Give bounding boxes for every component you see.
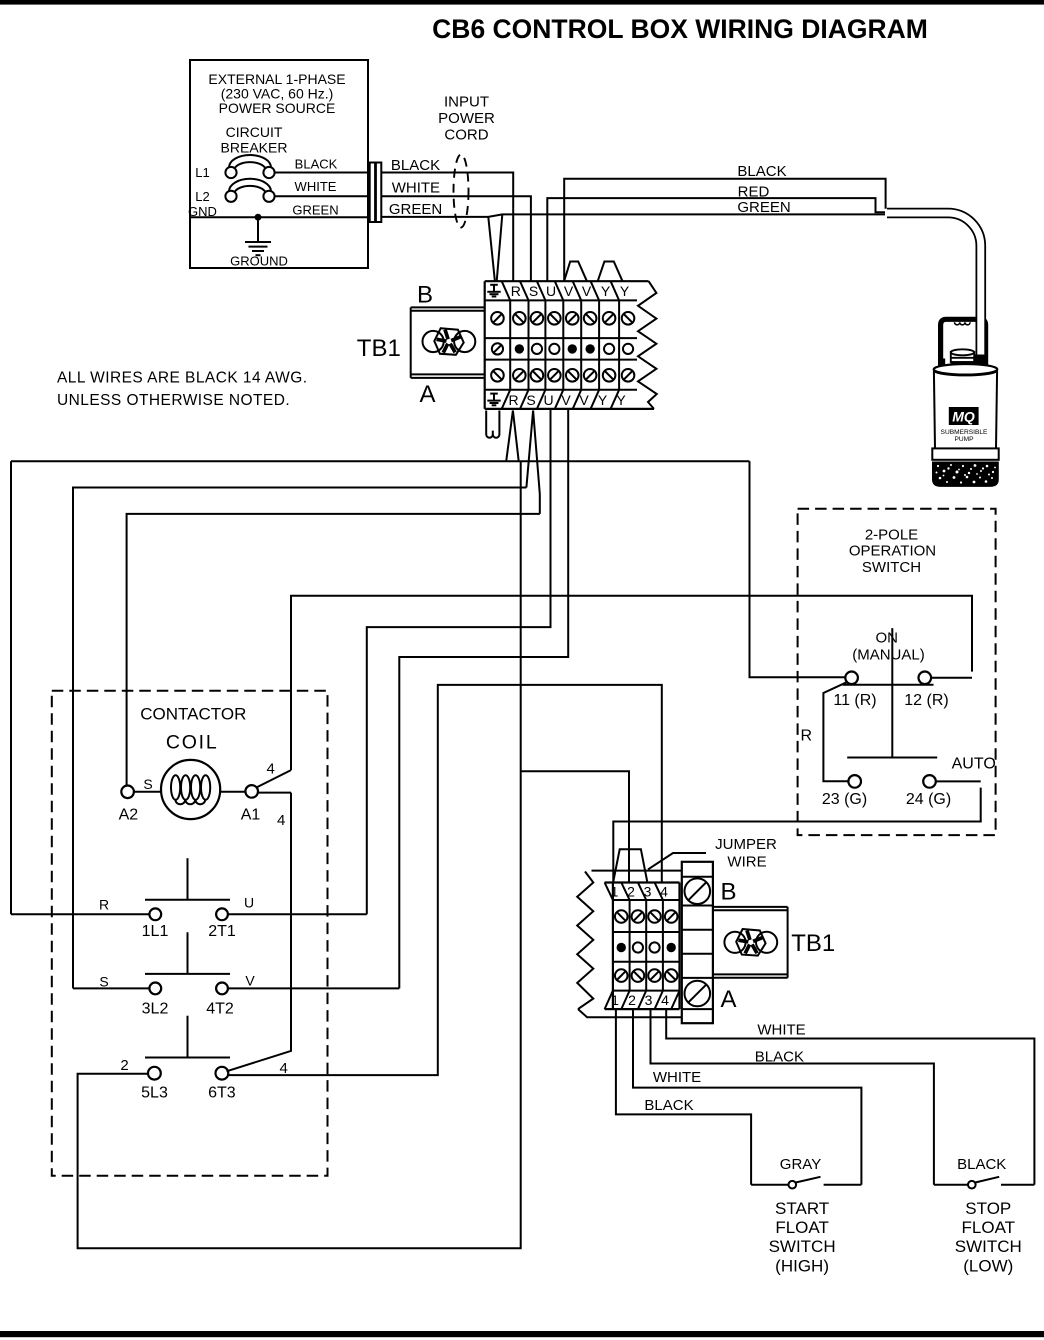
svg-text:V: V: [245, 973, 255, 989]
TB1 bracket MQ logo: [423, 328, 476, 355]
contact 1L1-2T1 bar and stem: [145, 858, 230, 900]
svg-text:SUBMERSIBLE: SUBMERSIBLE: [941, 429, 989, 436]
svg-text:UNLESS OTHERWISE NOTED.: UNLESS OTHERWISE NOTED.: [57, 392, 290, 409]
svg-text:1L1: 1L1: [142, 923, 169, 940]
wire white from L2 to connector: [275, 195, 370, 197]
svg-text:1: 1: [611, 883, 619, 899]
svg-text:ON: ON: [875, 630, 898, 647]
svg-text:GROUND: GROUND: [230, 254, 288, 269]
start float switch right wire: [824, 1184, 862, 1186]
svg-text:CONTACTOR: CONTACTOR: [140, 705, 246, 724]
svg-text:R: R: [508, 392, 518, 408]
pump cable gland: [974, 355, 986, 369]
svg-text:BREAKER: BREAKER: [221, 140, 288, 156]
wire lower TB1 cell4 to stop float switch right: [666, 1009, 1034, 1185]
switch lower contact bar: [847, 757, 937, 759]
terminal block TB1 top: outline: [485, 281, 654, 409]
junction dot on green wire: [255, 214, 262, 221]
TB1 row1 screw terminals: [491, 312, 634, 325]
TB1 bottom label ground symbol: [487, 394, 500, 406]
jumper wire callout line: [648, 853, 706, 869]
lower TB1 row borders: [613, 900, 680, 991]
wire 2 net branch to lower TB1 cell 2: [521, 771, 629, 882]
svg-text:R: R: [99, 897, 109, 913]
svg-text:GREEN: GREEN: [292, 203, 338, 218]
green taper legs into ground terminal: [488, 214, 502, 281]
svg-text:11 (R): 11 (R): [833, 692, 876, 709]
lower TB1 top label slanted dividers: [605, 883, 663, 901]
svg-text:A2: A2: [119, 807, 139, 824]
svg-text:2-POLE: 2-POLE: [865, 527, 918, 544]
ground symbol stem: [257, 217, 259, 242]
svg-text:R: R: [801, 728, 813, 745]
input power cord dashed ellipse: [454, 155, 469, 228]
wire R net left vertical to 1L1: [10, 461, 12, 914]
switch terminal 23(G) circle: [848, 775, 861, 788]
svg-text:6T3: 6T3: [208, 1085, 236, 1102]
svg-text:4: 4: [660, 883, 668, 899]
svg-text:WHITE: WHITE: [295, 179, 337, 194]
lower TB1 bracket MQ logo: [724, 929, 777, 956]
terminal A1 circle: [245, 785, 258, 798]
svg-text:U: U: [244, 895, 254, 911]
svg-text:2: 2: [628, 992, 636, 1008]
svg-text:WIRE: WIRE: [727, 854, 766, 871]
lower TB1 DIN rail bracket right: [713, 907, 788, 978]
svg-text:3: 3: [644, 883, 652, 899]
lower TB1 bottom flange: [578, 1009, 682, 1017]
pump handle: [941, 319, 986, 372]
svg-text:(LOW): (LOW): [963, 1257, 1013, 1276]
page bottom border bar: [0, 1331, 1044, 1337]
svg-text:BLACK: BLACK: [957, 1156, 1006, 1173]
switch terminal 11(R) circle: [845, 672, 858, 685]
svg-text:STOP: STOP: [965, 1199, 1011, 1218]
svg-text:1: 1: [611, 992, 619, 1008]
svg-text:3: 3: [645, 992, 653, 1008]
svg-text:U: U: [543, 392, 553, 408]
2-pole operation switch dashed box: [798, 509, 996, 835]
svg-text:A: A: [419, 381, 435, 408]
TB1 bottom row terminal letters: [508, 392, 626, 408]
lower TB1 row1 screw terminals: [615, 910, 678, 923]
wire lug trapezoid at column Y1: [598, 262, 623, 282]
svg-text:S: S: [529, 283, 538, 299]
wire 2 net: 5L3 loop to R bus: [78, 461, 521, 1248]
power source box: [190, 60, 368, 268]
wire A1 right stub: [258, 792, 291, 794]
page top border bar: [0, 0, 1044, 5]
contactor coil circle: [161, 760, 220, 819]
svg-text:CORD: CORD: [444, 127, 488, 144]
wire 12(R) to right vertical: [931, 677, 972, 679]
lower TB1 right strip: [682, 862, 713, 1023]
TB1 column divider lines: [510, 300, 619, 389]
switch terminal 12(R) circle: [919, 672, 932, 685]
svg-text:BLACK: BLACK: [755, 1049, 804, 1066]
wire V net from TB1-A to 4T2: [399, 409, 568, 989]
svg-text:BLACK: BLACK: [295, 157, 338, 172]
contact 5L3-6T3 bar and stem: [145, 1016, 230, 1058]
svg-text:BLACK: BLACK: [737, 163, 786, 180]
lower TB1 bottom digits 1 2 3 4: [611, 992, 669, 1008]
TB1 top label ground symbol: [487, 285, 500, 297]
breaker pole L1 arcs: [229, 155, 271, 169]
pump cap base dark band: [951, 361, 987, 372]
svg-text:INPUT: INPUT: [444, 94, 489, 111]
wire 4 net: A1 to switch 12(R): [291, 596, 972, 770]
svg-text:4: 4: [280, 1060, 288, 1077]
svg-text:4: 4: [277, 812, 285, 829]
wire 2T1 right: [228, 913, 367, 915]
wire lower TB1 cell2 to start float switch right: [633, 1009, 861, 1185]
start float switch circle: [789, 1181, 797, 1189]
ground symbol bars: [245, 242, 271, 255]
TB1 middle row indicator dots: [515, 344, 634, 354]
wire 24(G) right: [936, 780, 981, 782]
switch center actuator line: [891, 628, 893, 757]
pump cap: [951, 349, 974, 362]
contactor dashed box: [52, 691, 328, 1176]
terminal 2T1 circle: [216, 908, 228, 920]
pump lower band: [932, 448, 998, 459]
svg-text:WHITE: WHITE: [392, 180, 440, 197]
svg-text:Y: Y: [598, 392, 608, 408]
lower TB1 row3 screw terminals: [615, 969, 678, 982]
stop float switch left wire: [934, 1184, 968, 1186]
terminal A2 circle: [121, 786, 134, 799]
svg-text:S: S: [143, 776, 152, 792]
svg-text:GRAY: GRAY: [780, 1156, 821, 1173]
svg-text:MQ: MQ: [952, 409, 975, 425]
pump body: [934, 370, 997, 449]
breaker pole L1 terminal circles: [225, 167, 274, 178]
svg-text:S: S: [526, 392, 535, 408]
lower TB1 top digits 1 2 3 4: [611, 883, 669, 899]
svg-text:JUMPER: JUMPER: [715, 836, 777, 853]
svg-text:A: A: [720, 986, 736, 1013]
wire 3L2 left: [73, 987, 149, 989]
svg-text:ALL WIRES ARE BLACK 14 AWG.: ALL WIRES ARE BLACK 14 AWG.: [57, 369, 307, 386]
lower TB1 bottom label slanted dividers: [605, 991, 680, 1010]
svg-text:4T2: 4T2: [206, 1001, 234, 1018]
svg-text:SWITCH: SWITCH: [862, 559, 921, 576]
svg-text:2: 2: [120, 1057, 128, 1074]
svg-text:BLACK: BLACK: [391, 157, 440, 174]
svg-text:12 (R): 12 (R): [904, 692, 948, 709]
svg-text:WHITE: WHITE: [757, 1021, 805, 1038]
svg-text:FLOAT: FLOAT: [775, 1218, 829, 1237]
pump base speckles: [936, 464, 996, 484]
wire A1 diagonal up: [257, 770, 291, 787]
wire U net from TB1-A to 2T1: [367, 409, 551, 914]
wire R net horizontal bus: [11, 460, 750, 462]
terminal 6T3 circle: [216, 1067, 229, 1080]
svg-text:AUTO: AUTO: [952, 756, 996, 773]
svg-text:V: V: [582, 283, 592, 299]
pump handle grip bumps: [955, 322, 971, 325]
svg-text:U: U: [546, 283, 556, 299]
svg-text:SWITCH: SWITCH: [955, 1237, 1022, 1256]
svg-text:POWER: POWER: [438, 110, 495, 127]
svg-text:2T1: 2T1: [208, 923, 236, 940]
lower TB1 body outline: [605, 883, 680, 1010]
svg-text:V: V: [579, 392, 589, 408]
svg-text:S: S: [99, 974, 108, 990]
lower TB1 column dividers: [630, 900, 663, 991]
svg-text:RED: RED: [738, 183, 770, 200]
wire 4T2 right: [228, 987, 399, 989]
start float switch blade: [796, 1177, 821, 1183]
TB1 top row terminal letters: [511, 283, 630, 299]
lower TB1 top flange: [592, 870, 683, 872]
svg-text:A1: A1: [241, 807, 261, 824]
svg-text:V: V: [561, 392, 571, 408]
wire coil to A1: [220, 791, 245, 793]
switch top contact bar: [843, 684, 934, 686]
switch terminal 24(G) circle: [923, 775, 936, 788]
pump shoulder ellipse: [934, 364, 998, 375]
svg-text:V: V: [564, 283, 574, 299]
lower TB1 strip screw A: [685, 981, 711, 1007]
wire A2 to coil: [134, 791, 161, 793]
svg-text:CIRCUIT: CIRCUIT: [226, 124, 283, 140]
svg-text:4: 4: [267, 761, 275, 778]
TB1 top zigzag right edge: [638, 281, 657, 409]
terminal 4T2 circle: [216, 983, 228, 995]
wire S net horizontal to 3L2: [73, 488, 526, 989]
svg-text:BLACK: BLACK: [644, 1097, 693, 1114]
wire R net right vertical to switch 11(R): [750, 461, 846, 677]
svg-text:2: 2: [627, 883, 635, 899]
svg-text:3L2: 3L2: [142, 1001, 169, 1018]
TB1 row border lines: [485, 300, 637, 389]
stop float switch blade: [975, 1177, 999, 1183]
breaker pole L2 arcs: [229, 179, 271, 193]
svg-text:Y: Y: [601, 283, 611, 299]
svg-text:START: START: [775, 1199, 829, 1218]
wire 4 net: A1 down to 6T3: [227, 793, 291, 1072]
stop float switch circle: [968, 1181, 976, 1189]
pump MQ logo box: [949, 407, 979, 425]
wire green breaker to pump with taper to ground terminal: [381, 214, 886, 217]
svg-text:TB1: TB1: [357, 335, 401, 362]
svg-text:SWITCH: SWITCH: [769, 1237, 836, 1256]
svg-text:GREEN: GREEN: [737, 199, 790, 216]
TB1 middle row ground screw: [492, 343, 503, 354]
svg-text:PUMP: PUMP: [954, 436, 974, 443]
wire lower TB1 cell3 to stop float switch: [651, 1009, 934, 1185]
wire 24G net: switch to lower TB1 cell 1: [613, 788, 980, 883]
pump handle left attachment: [941, 359, 945, 371]
terminal 5L3 circle: [148, 1067, 161, 1080]
stop float switch right wire: [1001, 1184, 1034, 1186]
svg-text:23 (G): 23 (G): [822, 791, 867, 808]
wire 1L1 left: [11, 913, 149, 915]
wire red TB1 U column to pump cable: [547, 198, 888, 281]
start float switch left wire: [751, 1184, 788, 1186]
svg-text:L1: L1: [195, 165, 209, 180]
TB1 row3 screw terminals: [491, 369, 634, 382]
wire R from 11(R) down to 23(G): [823, 682, 848, 781]
svg-text:5L3: 5L3: [141, 1085, 168, 1102]
svg-text:24 (G): 24 (G): [906, 791, 951, 808]
svg-text:(MANUAL): (MANUAL): [852, 647, 925, 664]
wire R net: TB1-A R terminal taper: [506, 411, 519, 462]
jumper wire trapezoid cells 2-3: [613, 849, 647, 881]
svg-text:CB6 CONTROL BOX WIRING DIAGRAM: CB6 CONTROL BOX WIRING DIAGRAM: [432, 14, 928, 44]
contact 3L2-4T2 bar and stem: [145, 932, 230, 974]
svg-text:POWER SOURCE: POWER SOURCE: [219, 100, 336, 116]
svg-text:TB1: TB1: [791, 930, 835, 957]
svg-text:GREEN: GREEN: [389, 201, 442, 218]
breaker pole L2 terminal circles: [225, 191, 274, 202]
wire S net horizontal to coil A2: [127, 514, 540, 785]
svg-text:4: 4: [661, 992, 669, 1008]
svg-text:Y: Y: [616, 392, 626, 408]
wire black from L1 to connector: [275, 172, 370, 174]
TB1 bottom label row slanted dividers: [502, 390, 619, 409]
terminal 3L2 circle: [149, 983, 161, 995]
ground pigtail fork below TB1: [486, 411, 499, 438]
wire lug trapezoid at column V2: [564, 262, 587, 282]
wire 4 net: 6T3 to lower TB1 cell 4: [228, 685, 662, 1075]
wire green gnd inside box: [190, 216, 370, 218]
svg-text:Y: Y: [620, 283, 630, 299]
svg-text:B: B: [417, 282, 433, 309]
lower TB1 middle row indicator dots: [617, 942, 676, 952]
pump power cable: [887, 213, 981, 356]
svg-text:WHITE: WHITE: [653, 1069, 701, 1086]
svg-text:FLOAT: FLOAT: [962, 1218, 1016, 1237]
terminal 1L1 circle: [149, 908, 161, 920]
svg-text:(HIGH): (HIGH): [775, 1257, 829, 1276]
coil loops: [171, 775, 210, 804]
lower TB1 zigzag left edge: [577, 872, 593, 1010]
svg-text:COIL: COIL: [166, 732, 219, 754]
pump speckled base: [932, 462, 999, 487]
lower TB1 strip screw B: [685, 878, 711, 904]
lower TB1 right strip cell borders: [682, 877, 713, 1009]
wire S net: TB1-A S terminal taper: [526, 411, 539, 514]
TB1 DIN rail bracket left: [411, 307, 485, 378]
pump shoulder rim line: [934, 371, 996, 375]
svg-text:L2: L2: [195, 189, 209, 204]
wire lower TB1 cell1 to start float switch: [616, 1009, 751, 1185]
svg-text:R: R: [511, 283, 521, 299]
svg-text:OPERATION: OPERATION: [849, 543, 936, 560]
cord connector bars: [370, 163, 382, 223]
TB1 top label row slanted dividers: [502, 281, 619, 300]
wire black breaker to TB1-B R column: [381, 173, 513, 282]
wire white breaker to TB1-B S column: [381, 196, 531, 281]
wire black TB1 V column to pump cable: [564, 179, 885, 282]
svg-text:B: B: [720, 879, 736, 906]
